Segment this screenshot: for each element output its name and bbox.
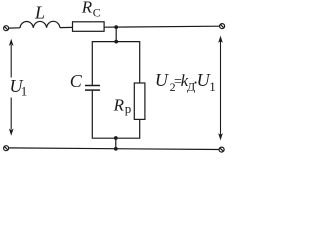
svg-text:R: R xyxy=(113,96,125,115)
svg-text:1: 1 xyxy=(21,84,28,99)
svg-text:C: C xyxy=(70,71,83,91)
svg-text:p: p xyxy=(125,101,132,116)
svg-text:R: R xyxy=(81,0,93,17)
svg-text:C: C xyxy=(93,5,101,19)
svg-text:1: 1 xyxy=(209,79,216,94)
svg-text:L: L xyxy=(34,2,45,22)
svg-text:U: U xyxy=(155,70,169,90)
